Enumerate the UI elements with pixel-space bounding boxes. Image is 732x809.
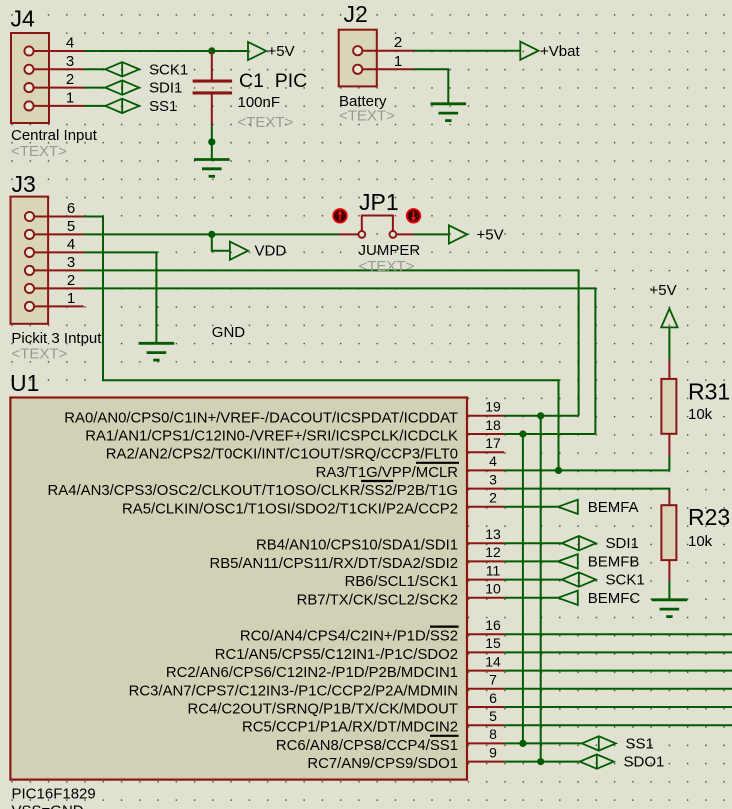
resistor R23 [661, 505, 676, 560]
U1 pin 8 (RC6) [276, 726, 504, 754]
wire C1 bottom to ground [211, 125, 213, 159]
svg-text:RB5/AN11/CPS11/RX/DT/SDA2/SDI2: RB5/AN11/CPS11/RX/DT/SDA2/SDI2 [209, 556, 458, 572]
wire U1 pin8 to SS1 [504, 742, 582, 744]
svg-text:RC1/AN5/CPS5/C12IN1-/P1C/SDO2: RC1/AN5/CPS5/C12IN1-/P1C/SDO2 [215, 647, 458, 663]
svg-text:RB4/AN10/CPS10/SDA1/SDI1: RB4/AN10/CPS10/SDA1/SDI1 [256, 538, 458, 554]
svg-text:4: 4 [67, 236, 75, 253]
terminal BEMFA [558, 499, 639, 516]
J2 pin 2 [362, 34, 414, 51]
wire J3 pin4 to ground [84, 252, 157, 343]
svg-text:16: 16 [485, 617, 501, 633]
svg-text:J3: J3 [12, 171, 36, 197]
J3 pin 1 [34, 290, 84, 307]
power terminal +Vbat [520, 42, 580, 60]
svg-text:1: 1 [67, 290, 75, 307]
svg-text:RA3/T1G/VPP/MCLR: RA3/T1G/VPP/MCLR [316, 465, 459, 481]
wire J2 pin1 to ground [414, 69, 448, 103]
JP1 left pin marker [332, 208, 347, 223]
overline SS2 (pin 3) [361, 480, 393, 482]
connector J2 [339, 30, 377, 87]
wire J3 pin3 to U1 RA0 [84, 270, 579, 415]
ground (below J2) [431, 102, 467, 105]
wire vertical RA0-SDO1 bus [540, 416, 542, 762]
U1 pin 19 (RA0) [64, 399, 504, 427]
svg-text:<TEXT>: <TEXT> [339, 108, 395, 125]
terminal BEMFC [558, 590, 640, 607]
svg-text:J4: J4 [11, 6, 36, 32]
node MCLR junction [555, 467, 562, 474]
svg-text:SS1: SS1 [149, 98, 177, 115]
svg-text:+5V: +5V [650, 282, 677, 299]
J3 pin 3 [34, 254, 84, 271]
JP1 right pin marker [406, 208, 421, 223]
U1 pin 10 (RB7) [297, 581, 505, 609]
terminal SCK1 (U1) [562, 572, 645, 589]
node pin9 junction [537, 758, 544, 765]
wire J4 pin3 to SCK1 [84, 68, 105, 70]
svg-text:JUMPER: JUMPER [359, 242, 421, 259]
svg-text:2: 2 [66, 71, 74, 88]
overline SS2 (pin 16) [430, 625, 459, 627]
U1 pin 16 (RC0) [240, 617, 504, 645]
svg-text:18: 18 [485, 417, 501, 433]
wire R31 bottom to MCLR row [668, 434, 670, 471]
svg-text:RA5/CLKIN/OSC1/T1OSI/SDO2/T1CK: RA5/CLKIN/OSC1/T1OSI/SDO2/T1CKI/P2A/CCP2 [122, 501, 458, 517]
svg-text:2: 2 [489, 490, 497, 506]
U1 pin 11 (RB6) [345, 562, 505, 590]
terminal SS1 (U1) [582, 735, 654, 752]
wire U1 pin10 to BEMFC [504, 597, 558, 599]
U1 pin 9 (RC7) [307, 744, 504, 772]
terminal SDI1 (J4) [105, 80, 182, 97]
svg-text:RA2/AN2/CPS2/T0CKI/INT/C1OUT/S: RA2/AN2/CPS2/T0CKI/INT/C1OUT/SRQ/CCP3/FL… [106, 447, 458, 463]
svg-text:SS1: SS1 [626, 735, 654, 752]
svg-text:8: 8 [489, 726, 497, 742]
IC U1 PIC16F1829 body [10, 398, 467, 780]
overline MCLR (pin 4) [416, 462, 459, 464]
svg-text:<TEXT>: <TEXT> [238, 114, 294, 131]
J4 pin 1 [34, 89, 84, 106]
svg-text:SCK1: SCK1 [606, 572, 645, 589]
wire J4 pin2 to SDI1 [84, 87, 105, 89]
ground (below R23) [652, 598, 688, 601]
J3 pin 4 [34, 236, 84, 253]
J2 pin 1 [362, 53, 414, 70]
terminal SCK1 (J4) [105, 61, 188, 78]
svg-text:PIC16F1829: PIC16F1829 [12, 786, 96, 803]
U1 pin 5 (RC5) [242, 708, 504, 736]
power terminal +5V up arrow [661, 309, 677, 328]
svg-text:13: 13 [485, 526, 501, 542]
svg-text:RC5/CCP1/P1A/RX/DT/MDCIN2: RC5/CCP1/P1A/RX/DT/MDCIN2 [242, 720, 458, 736]
svg-text:10k: 10k [688, 406, 713, 423]
svg-text:BEMFC: BEMFC [588, 590, 641, 607]
svg-text:SDI1: SDI1 [149, 80, 182, 97]
svg-text:+Vbat: +Vbat [540, 43, 580, 60]
wire U1 pin11 to SCK1 [504, 579, 562, 581]
wire +5V to R31 [668, 327, 670, 379]
ground (below J3) [139, 342, 175, 345]
wire +5V rail down to C1 [211, 51, 213, 81]
wire U1 pin6 row to right edge [504, 706, 732, 708]
wire U1 pin12 to BEMFB [504, 560, 558, 562]
wire U1 pin5 row to right edge [504, 724, 732, 726]
U1 pin 13 (RB4) [256, 526, 504, 554]
wire U1 pin16 row to right edge [504, 633, 732, 635]
svg-text:9: 9 [489, 744, 497, 760]
J3 pin 6 [34, 200, 84, 217]
U1 pin 6 (RC4) [187, 690, 504, 718]
svg-text:VSS=GND: VSS=GND [12, 803, 84, 809]
connector J4 [11, 33, 49, 123]
wire branch to VDD [212, 234, 230, 250]
wire U1 pin14 row to right edge [504, 670, 732, 672]
svg-text:10k: 10k [688, 533, 713, 550]
U1 pin 14 (RC2) [166, 653, 504, 681]
wire U1 pin3 row to R23 [504, 489, 669, 491]
svg-text:RC3/AN7/CPS7/C12IN3-/P1C/CCP2/: RC3/AN7/CPS7/C12IN3-/P1C/CCP2/P2A/MDMIN [129, 683, 458, 699]
svg-text:RC6/AN8/CPS8/CCP4/SS1: RC6/AN8/CPS8/CCP4/SS1 [276, 738, 458, 754]
node pin8 junction [519, 740, 526, 747]
svg-text:SDO1: SDO1 [624, 754, 665, 771]
wire U1 pin13 to SDI1 [504, 542, 562, 544]
svg-text:11: 11 [486, 562, 501, 578]
svg-text:SCK1: SCK1 [149, 61, 188, 78]
svg-text:1: 1 [66, 89, 74, 106]
svg-text:10: 10 [485, 581, 501, 597]
U1 pin 15 (RC1) [215, 635, 505, 663]
svg-text:RC7/AN9/CPS9/SDO1: RC7/AN9/CPS9/SDO1 [307, 756, 458, 772]
wire U1 pin15 row to right edge [504, 651, 732, 653]
J4 pin 3 [34, 53, 84, 70]
svg-text:RA0/AN0/CPS0/C1IN+/VREF-/DACOU: RA0/AN0/CPS0/C1IN+/VREF-/DACOUT/ICSPDAT/… [64, 410, 458, 426]
power terminal +5V (top left) [248, 42, 295, 60]
svg-text:JP1: JP1 [359, 189, 399, 215]
svg-text:12: 12 [485, 544, 501, 560]
svg-text:4: 4 [489, 453, 497, 469]
svg-text:100nF: 100nF [238, 94, 281, 111]
wire J3 pin6 to U1 MCLR (RA3) [84, 217, 559, 471]
node C1 top junction [208, 47, 215, 54]
wire J4 pin4 to +5V [84, 50, 248, 52]
svg-text:7: 7 [489, 672, 497, 688]
svg-text:1: 1 [394, 53, 402, 70]
U1 pin 17 (RA2) [106, 435, 504, 463]
svg-text:BEMFB: BEMFB [588, 553, 640, 570]
svg-text:2: 2 [394, 34, 402, 51]
svg-text:3: 3 [66, 53, 74, 70]
resistor R31 [661, 379, 676, 434]
node pin19 junction [537, 412, 544, 419]
svg-text:<TEXT>: <TEXT> [359, 258, 415, 275]
svg-text:VDD: VDD [255, 243, 287, 260]
node VDD branch junction [208, 231, 215, 238]
svg-text:+5V: +5V [268, 43, 295, 60]
svg-text:15: 15 [485, 635, 501, 651]
wire U1 pin7 row to right edge [504, 688, 732, 690]
svg-text:5: 5 [489, 708, 497, 724]
svg-text:R23: R23 [688, 504, 730, 530]
U1 pin 3 (RA4) [48, 471, 505, 499]
wire R23 bottom to ground [668, 560, 670, 600]
U1 pin 2 (RA5) [122, 490, 504, 518]
wire J2 pin2 to +Vbat [414, 50, 520, 52]
svg-text:RC2/AN6/CPS6/C12IN2-/P1D/P2B/M: RC2/AN6/CPS6/C12IN2-/P1D/P2B/MDCIN1 [166, 665, 458, 681]
wire vertical RA1-SS1 bus [522, 434, 524, 743]
J4 pin 4 [34, 35, 84, 52]
terminal BEMFB [558, 553, 639, 570]
wire U1 pin18 row [504, 433, 595, 435]
power terminal +5V (JP1) [449, 225, 504, 243]
svg-text:BEMFA: BEMFA [588, 499, 639, 516]
svg-text:2: 2 [67, 272, 75, 289]
svg-text:4: 4 [66, 35, 74, 52]
svg-text:RB7/TX/CK/SCL2/SCK2: RB7/TX/CK/SCL2/SCK2 [297, 592, 458, 608]
J4 pin 2 [34, 71, 84, 88]
svg-text:C1 PIC: C1 PIC [239, 70, 307, 92]
U1 pin 7 (RC3) [129, 672, 505, 700]
svg-text:<TEXT>: <TEXT> [11, 143, 67, 160]
svg-text:<TEXT>: <TEXT> [11, 345, 67, 362]
node pin18 junction [519, 430, 526, 437]
J3 pin 2 [34, 272, 84, 289]
U1 pin 18 (RA1) [85, 417, 504, 445]
wire U1 pin2 to BEMFA [504, 506, 558, 508]
svg-text:GND: GND [212, 324, 246, 341]
svg-text:5: 5 [67, 218, 75, 235]
svg-text:SDI1: SDI1 [606, 535, 639, 552]
terminal SDI1 (U1) [562, 535, 639, 552]
wire U1 pin19 row [504, 415, 578, 417]
svg-text:+5V: +5V [477, 226, 504, 243]
wire J3 pin5 to JP1 [84, 233, 339, 235]
svg-text:RA4/AN3/CPS3/OSC2/CLKOUT/T1OSO: RA4/AN3/CPS3/OSC2/CLKOUT/T1OSO/CLKR/SS2/… [48, 483, 458, 499]
wire U1 pin4 row to R31 [504, 469, 669, 471]
overline SS1 (pin 8) [430, 735, 459, 737]
svg-text:14: 14 [485, 653, 501, 669]
node C1 bottom junction [208, 138, 215, 145]
svg-text:J2: J2 [344, 1, 368, 27]
U1 pin 12 (RB5) [209, 544, 504, 572]
U1 pin 4 (RA3) [316, 453, 505, 481]
capacitor C1 [193, 80, 233, 126]
svg-text:U1: U1 [10, 370, 39, 396]
svg-text:3: 3 [489, 471, 497, 487]
svg-text:6: 6 [67, 200, 75, 217]
jumper JP1 [339, 216, 414, 238]
svg-text:19: 19 [485, 399, 501, 415]
wire J4 pin1 to SS1 [84, 105, 105, 107]
svg-text:6: 6 [489, 690, 497, 706]
svg-text:R31: R31 [688, 379, 730, 405]
svg-text:RC0/AN4/CPS4/C2IN+/P1D/SS2: RC0/AN4/CPS4/C2IN+/P1D/SS2 [240, 629, 458, 645]
J3 pin 5 [34, 218, 84, 235]
ground (below C1) [194, 158, 230, 161]
svg-text:3: 3 [67, 254, 75, 271]
svg-text:Central Input: Central Input [11, 127, 98, 144]
connector J3 [11, 197, 49, 324]
wire J3 pin2 to U1 RA1 [84, 288, 596, 434]
wire U1 RA4 to R23 top [668, 489, 670, 506]
svg-text:17: 17 [485, 435, 501, 451]
wire JP1 to +5V [414, 233, 449, 235]
svg-text:RA1/AN1/CPS1/C12IN0-/VREF+/SRI: RA1/AN1/CPS1/C12IN0-/VREF+/SRI/ICSPCLK/I… [85, 429, 458, 445]
power terminal VDD [230, 242, 286, 260]
wire U1 pin9 to SDO1 [504, 761, 580, 763]
terminal SS1 (J4) [105, 98, 177, 115]
svg-text:RB6/SCL1/SCK1: RB6/SCL1/SCK1 [345, 574, 458, 590]
svg-text:RC4/C2OUT/SRNQ/P1B/TX/CK/MDOUT: RC4/C2OUT/SRNQ/P1B/TX/CK/MDOUT [187, 702, 458, 718]
terminal SDO1 (U1) [580, 754, 665, 771]
